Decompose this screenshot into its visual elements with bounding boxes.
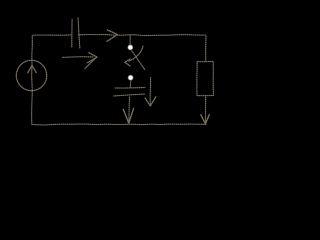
capacitor C1 left plate <box>71 19 73 47</box>
switch S1 top terminal <box>127 45 133 51</box>
current arrow on top wire <box>107 30 118 42</box>
current arrow through resistor R1 <box>201 96 210 124</box>
switch S1 blade <box>132 51 145 70</box>
current source I1 <box>16 60 46 90</box>
wire left side <box>31 35 34 124</box>
switch S1 closing arrow <box>125 46 143 66</box>
current arrow under capacitor C1 <box>62 52 97 68</box>
switch S1 bottom terminal <box>128 75 134 81</box>
capacitor C1 right plate <box>78 18 80 49</box>
current arrow below capacitor C2 <box>123 96 134 123</box>
wire right side top <box>205 35 207 61</box>
capacitor C2 bottom plate <box>114 94 145 96</box>
wire top-left segment <box>32 34 72 36</box>
wire switch to capacitor C2 <box>129 81 132 88</box>
wire switch drop from top wire <box>129 35 131 44</box>
capacitor C2 top plate <box>114 87 145 90</box>
wire bottom <box>32 123 206 126</box>
resistor R1 <box>197 61 214 95</box>
current arrow right of switch <box>145 77 156 106</box>
wire top-right segment <box>78 34 206 37</box>
